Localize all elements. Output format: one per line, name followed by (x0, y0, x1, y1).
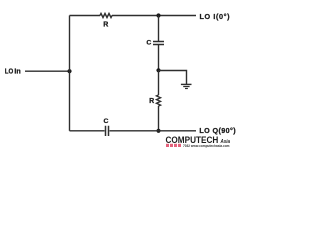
svg-text:C: C (146, 39, 151, 46)
resistor R1 (100, 14, 112, 18)
wire LO In lead (25, 70, 70, 72)
watermark url line (166, 143, 230, 148)
svg-text:LO Q(90°): LO Q(90°) (199, 126, 236, 135)
wire top output side (112, 15, 196, 17)
svg-text:In: In (14, 69, 20, 76)
wire C1 bottom lead (158, 45, 160, 71)
ground (181, 84, 192, 88)
wire R2 top lead (158, 71, 160, 96)
wire bottom output side (110, 130, 197, 132)
wire left vertical (69, 16, 71, 131)
svg-text:LO I(0°): LO I(0°) (200, 12, 231, 21)
svg-text:LO: LO (5, 69, 14, 76)
capacitor C1 (153, 42, 164, 45)
node LO Q (156, 129, 160, 133)
wire C1 top lead (158, 16, 160, 42)
node ground junction (156, 68, 160, 72)
svg-text:R: R (103, 22, 108, 29)
svg-text:7032 www.computechasia.com: 7032 www.computechasia.com (183, 143, 230, 148)
node LO In junction (67, 69, 71, 73)
wire R2 bottom lead (158, 106, 160, 131)
svg-text:R: R (149, 98, 154, 105)
wire top input side (70, 15, 101, 17)
node LO I (156, 13, 160, 17)
capacitor C2 (106, 126, 109, 136)
svg-text:C: C (104, 118, 109, 125)
resistor R2 (157, 95, 161, 106)
wire to ground (159, 71, 187, 85)
wire bottom input side (70, 130, 105, 132)
